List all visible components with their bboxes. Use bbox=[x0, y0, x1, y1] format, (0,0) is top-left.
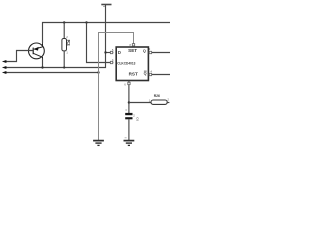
wire to R26 bbox=[129, 102, 151, 104]
off-page arrow 3 bbox=[2, 71, 7, 74]
svg-text:6: 6 bbox=[124, 83, 126, 86]
wire D pin bbox=[106, 52, 114, 54]
wire base to off-page bbox=[6, 51, 33, 62]
wire transistor collector drop bbox=[42, 59, 44, 68]
svg-text:4: 4 bbox=[151, 71, 153, 74]
wire CLK from rail bbox=[87, 23, 114, 63]
wire ground net to off-page bbox=[6, 72, 99, 74]
pin square CLK bbox=[110, 61, 112, 63]
svg-text:CLKCD4013: CLKCD4013 bbox=[117, 61, 135, 65]
pin square RST bbox=[128, 82, 130, 84]
pin square D bbox=[110, 51, 112, 53]
pin square SET bbox=[132, 44, 134, 46]
svg-text:D: D bbox=[118, 50, 121, 55]
junction dot rail/R3 bbox=[63, 21, 65, 23]
wire SET loop to ground (light) bbox=[99, 33, 134, 141]
svg-text:Q: Q bbox=[143, 49, 146, 53]
junction dot rail/CLK drop bbox=[85, 21, 87, 23]
svg-text:2: 2 bbox=[66, 36, 68, 39]
svg-text:R3: R3 bbox=[65, 40, 71, 46]
svg-text:SET: SET bbox=[128, 48, 137, 53]
wire Qbar output bbox=[149, 74, 171, 76]
wire Q output bbox=[149, 52, 171, 54]
svg-text:2: 2 bbox=[168, 99, 170, 102]
junction dot set-loop/ground net bbox=[97, 71, 99, 73]
wire RST bottom pin down to cap node bbox=[128, 81, 130, 114]
junction dot cap/R26 node bbox=[128, 101, 130, 103]
svg-text:1: 1 bbox=[66, 52, 68, 55]
ground GND left bbox=[93, 141, 104, 146]
junction dot collector/net bbox=[41, 66, 43, 68]
capacitor C6 bbox=[125, 110, 139, 140]
off-page arrow 2 bbox=[2, 66, 7, 69]
svg-text:5: 5 bbox=[112, 49, 114, 52]
resistor R26 bbox=[149, 94, 170, 104]
pin square Q bbox=[149, 51, 151, 53]
resistor R3 bbox=[62, 23, 71, 68]
junction dot R3/collector net bbox=[63, 66, 65, 68]
svg-text:R26: R26 bbox=[154, 94, 160, 98]
power rail wire bbox=[43, 23, 171, 44]
off-page arrow 1 bbox=[2, 60, 7, 63]
IC U1 CD4013 box bbox=[116, 47, 148, 81]
wire collector net to off-page and up to D node bbox=[6, 53, 106, 68]
svg-text:RST: RST bbox=[129, 72, 138, 77]
pin square Qbar bbox=[149, 73, 151, 75]
IC label Qbar bbox=[144, 71, 147, 76]
power symbol VCC bbox=[101, 5, 111, 7]
svg-text:C6: C6 bbox=[136, 117, 140, 121]
svg-text:Q: Q bbox=[144, 72, 147, 76]
junction dot D node bbox=[104, 51, 106, 53]
svg-text:2: 2 bbox=[133, 114, 135, 118]
svg-text:2: 2 bbox=[149, 48, 151, 51]
svg-text:3: 3 bbox=[112, 59, 114, 62]
ground GND right bbox=[124, 138, 135, 146]
transistor Q1 (PNP) bbox=[29, 43, 45, 59]
wire power feed down to D node bbox=[105, 5, 107, 53]
